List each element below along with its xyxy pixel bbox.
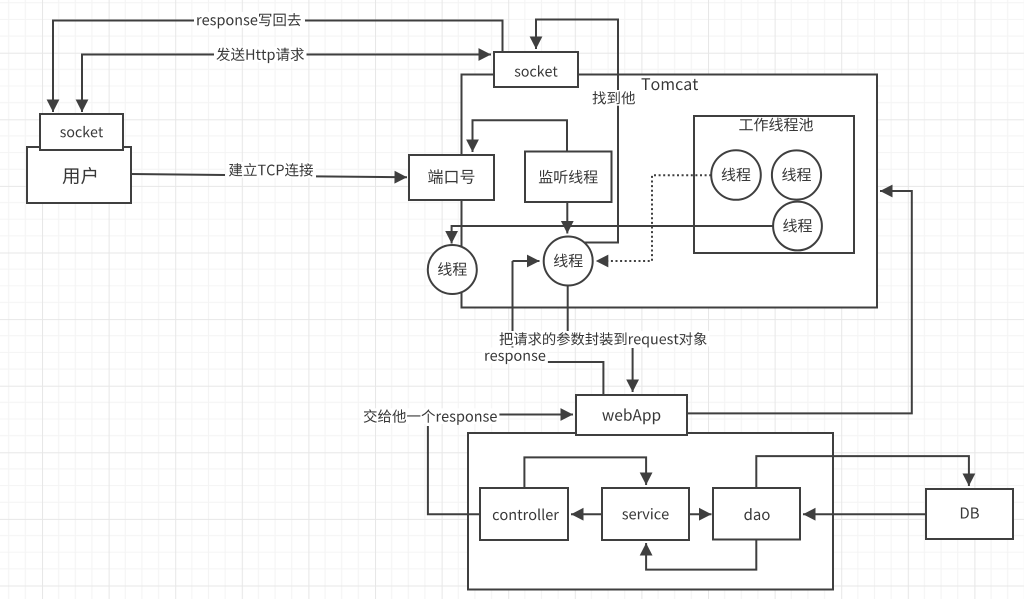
dotted wire: pool thread dispatch to middle thread [598, 175, 711, 261]
wire: response wire arrow into middle thread circle [513, 260, 540, 262]
label: 线程 middle circle [554, 254, 583, 268]
wire: request object arrow into webApp top [632, 348, 634, 392]
wire: DB to dao arrow [803, 513, 926, 515]
wire: establish TCP connection, left segment from user box [131, 174, 225, 175]
controller box [480, 488, 568, 540]
wire: send Http request, left segment down to user socket [82, 55, 214, 113]
wire: dao to DB over the top [756, 456, 969, 488]
label: webApp [602, 408, 660, 424]
wire: controller to service over the top [524, 457, 646, 488]
Tomcat container box [462, 75, 878, 308]
DB box [926, 489, 1013, 539]
label: 线程 left circle [438, 262, 467, 276]
label: 把请求的参数封装到request对象 [497, 331, 709, 346]
pool thread circle 3 [773, 202, 822, 251]
label: 线程 pool circle 3 [783, 219, 812, 233]
wire: from pool thread circle to left thread circle [452, 226, 797, 244]
label: 端口号 [428, 169, 474, 184]
port number box (端口号) [409, 155, 494, 200]
label: service [622, 508, 668, 519]
middle thread circle [544, 237, 593, 286]
label: socket (tomcat) [515, 65, 558, 77]
wire: response written back (top), right segment into top socket [305, 21, 503, 52]
tomcat socket box [494, 52, 578, 87]
wire: dao to service under the bottom [646, 540, 756, 570]
wire: send Http request, right segment into tomcat socket [306, 54, 491, 56]
pool thread circle 2 [772, 150, 821, 199]
label: 用户 [63, 167, 97, 184]
label: DB [961, 508, 979, 519]
label: 线程 pool circle 2 [782, 168, 811, 182]
worker thread pool box (工作线程池) [694, 116, 854, 253]
label: 交给他一个response [361, 408, 499, 424]
wire: service to dao arrow [689, 513, 712, 515]
label: 找到他 [590, 90, 638, 106]
label: controller [493, 509, 559, 521]
webApp inner container box [468, 433, 833, 590]
wire: establish TCP connection, right segment into port box [316, 175, 407, 178]
wire: webApp right to Tomcat right edge [687, 191, 912, 413]
wire: response wire vertical from webApp to middle thread [512, 261, 514, 349]
dao box [713, 488, 800, 540]
wire: response written back (top), left segment down to user socket [53, 21, 195, 113]
webApp box [576, 395, 687, 435]
wire: listener thread to port number [473, 120, 568, 152]
wire: middle thread down toward request label [567, 285, 569, 331]
service box [602, 488, 689, 540]
wire: give him a response, from label into webApp left [494, 414, 573, 416]
label: dao [744, 508, 769, 520]
left thread circle [428, 245, 477, 294]
label: 发送Http请求 [214, 47, 307, 63]
label: Tomcat [642, 78, 699, 90]
pool thread circle 1 [711, 150, 761, 200]
wire: give him a response, from controller to label [428, 426, 480, 514]
wire: service to controller arrow [571, 513, 602, 515]
label: 监听线程 [539, 170, 598, 184]
user box (用户) [27, 147, 131, 203]
label: socket (user) [60, 126, 103, 137]
user socket box [40, 114, 123, 150]
label: response [482, 348, 548, 364]
wire: thread finds socket (找到他) [536, 20, 618, 243]
label: 线程 pool circle 1 [722, 168, 751, 182]
wire: response wire from label into webApp top [544, 362, 603, 394]
label: response写回去 [194, 12, 303, 28]
label: 建立TCP连接 [226, 162, 315, 178]
wire: listener thread down to middle thread circle [566, 202, 568, 234]
listener thread box (监听线程) [525, 152, 612, 203]
label: 工作线程池 [739, 118, 813, 132]
